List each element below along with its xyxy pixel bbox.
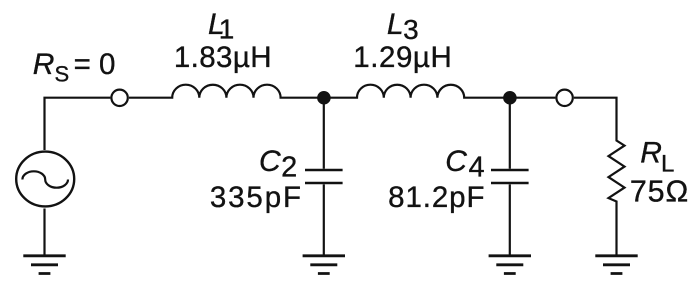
svg-text:L3: L3 bbox=[387, 8, 419, 45]
svg-text:C4: C4 bbox=[445, 145, 484, 184]
svg-text:81.2pF: 81.2pF bbox=[388, 181, 485, 214]
svg-text:1.83µH: 1.83µH bbox=[174, 41, 272, 74]
svg-text:75Ω: 75Ω bbox=[630, 175, 689, 209]
svg-text:C2: C2 bbox=[259, 145, 297, 184]
svg-text:RS= 0: RS= 0 bbox=[33, 48, 116, 87]
svg-text:RL: RL bbox=[640, 137, 674, 178]
svg-text:L1: L1 bbox=[208, 8, 234, 45]
svg-text:1.29µH: 1.29µH bbox=[353, 41, 452, 74]
svg-text:335pF: 335pF bbox=[210, 181, 303, 214]
